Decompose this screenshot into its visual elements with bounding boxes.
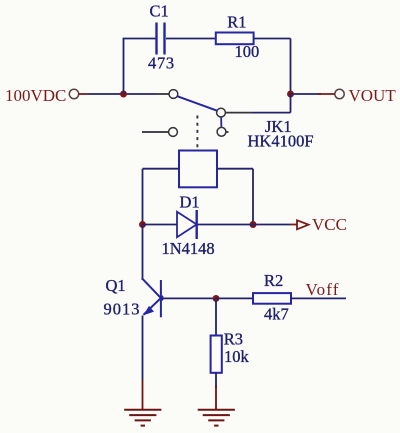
node junction left rail <box>120 91 127 98</box>
svg-text:1N4148: 1N4148 <box>162 239 215 258</box>
power port VCC arrow <box>297 220 309 229</box>
wire port to junction (maroon then navy) <box>79 93 88 95</box>
wire diode row <box>143 224 254 226</box>
transistor Q1 <box>142 278 163 317</box>
svg-text:C1: C1 <box>150 1 169 20</box>
svg-text:10k: 10k <box>224 347 250 366</box>
svg-text:R2: R2 <box>264 271 283 290</box>
svg-text:100VDC: 100VDC <box>5 86 66 105</box>
wire R1 to right corner <box>254 38 291 40</box>
port VOUT circle <box>335 89 344 98</box>
wire base to junction <box>161 297 216 299</box>
node junction diode left <box>139 221 146 228</box>
svg-text:HK4100F: HK4100F <box>248 132 314 151</box>
wire up from junction <box>123 39 125 95</box>
wire top rail to C1 <box>123 38 156 40</box>
ground right <box>198 410 235 426</box>
wire to VCC <box>253 224 290 226</box>
svg-text:Voff: Voff <box>306 280 340 299</box>
wire R2 to Voff <box>291 297 346 299</box>
svg-text:473: 473 <box>148 54 175 73</box>
relay coil box <box>179 151 217 188</box>
wire junction to R2 <box>216 297 253 299</box>
wire diode junction down to Q1 collector <box>142 225 144 281</box>
svg-text:Q1: Q1 <box>106 276 126 295</box>
wire coil right <box>217 168 253 170</box>
svg-text:VCC: VCC <box>312 215 347 234</box>
ground left <box>124 410 161 426</box>
resistor R3 <box>211 336 222 373</box>
svg-text:R1: R1 <box>227 13 246 32</box>
svg-text:100: 100 <box>235 42 260 61</box>
wire throw link <box>220 117 222 127</box>
resistor R1 <box>216 33 254 45</box>
svg-text:9013: 9013 <box>104 300 141 319</box>
capacitor C1 <box>155 23 165 55</box>
wire C1 to R1 <box>166 38 215 40</box>
svg-text:D1: D1 <box>180 193 200 212</box>
switch NC contact circle <box>169 128 178 137</box>
wire down right <box>290 39 292 95</box>
wire junction down to R3 <box>215 298 217 335</box>
actuation dotted line <box>196 116 198 150</box>
switch contact circle lower <box>217 127 226 136</box>
wire R3 to ground <box>215 373 217 388</box>
switch throw circle (NO) <box>217 108 226 117</box>
node junction base/R2/R3 <box>213 295 220 302</box>
switch blade <box>177 96 217 111</box>
wire coil left <box>143 168 180 170</box>
svg-text:R3: R3 <box>224 330 243 349</box>
wire throw to right rail <box>225 112 252 114</box>
svg-text:VOUT: VOUT <box>349 86 397 105</box>
node junction diode right <box>250 221 257 228</box>
diode D1 <box>177 210 197 239</box>
svg-text:4k7: 4k7 <box>264 305 289 324</box>
wire junction to VOUT <box>291 93 322 95</box>
wire pivot tick <box>226 131 229 133</box>
node junction right rail <box>287 91 294 98</box>
port 100VDC circle <box>69 89 78 98</box>
wire NC stub <box>142 131 169 133</box>
wire Q1 emitter down to ground <box>142 316 144 381</box>
resistor R2 <box>253 293 291 304</box>
relay JK1 switch pole circle <box>169 90 178 99</box>
